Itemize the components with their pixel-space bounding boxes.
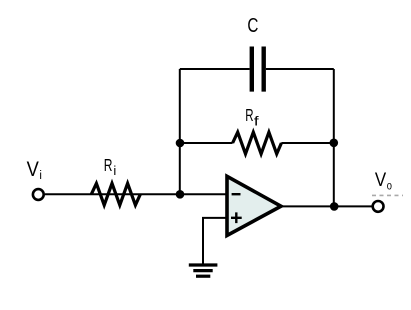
dashed underline artifact below Vo	[372, 194, 403, 196]
wire: Rf left lead	[180, 142, 233, 144]
svg-text:V: V	[375, 169, 386, 191]
ground	[189, 265, 218, 276]
svg-text:R: R	[245, 105, 253, 125]
svg-text:i: i	[113, 163, 116, 178]
wire: non-inverting input to ground	[203, 218, 227, 264]
capacitor C plates	[252, 47, 264, 92]
node: input summing junction	[176, 190, 185, 199]
wire: right vertical drop from capacitor rail to output node	[333, 69, 335, 206]
wire: input from Vi terminal to op-amp inverting input	[45, 193, 227, 195]
wire: top rail left segment to capacitor left plate	[180, 68, 250, 70]
wire: left vertical riser from input node up to capacitor rail	[179, 69, 181, 194]
resistor Ri	[91, 183, 140, 205]
terminal: Vi input open circle	[33, 189, 44, 200]
op-amp inverting input minus sign	[232, 193, 241, 195]
wire: op-amp output to Vo terminal	[281, 205, 372, 207]
svg-text:f: f	[254, 115, 260, 129]
wire: top rail right segment from capacitor right plate	[266, 68, 334, 70]
wire: Rf right lead	[281, 142, 334, 144]
svg-text:V: V	[27, 158, 39, 181]
op-amp U1 triangle	[227, 176, 281, 235]
node: output junction	[330, 202, 339, 211]
node: Rf right junction on right drop	[330, 139, 339, 148]
svg-text:C: C	[247, 15, 258, 37]
svg-text:o: o	[387, 179, 392, 193]
node: junction of Rf tap on left riser	[176, 139, 185, 148]
op-amp non-inverting input plus sign	[231, 212, 242, 223]
svg-text:R: R	[104, 155, 113, 175]
svg-text:i: i	[39, 170, 42, 182]
resistor Rf	[233, 132, 282, 154]
terminal: Vo output open circle	[373, 201, 384, 212]
